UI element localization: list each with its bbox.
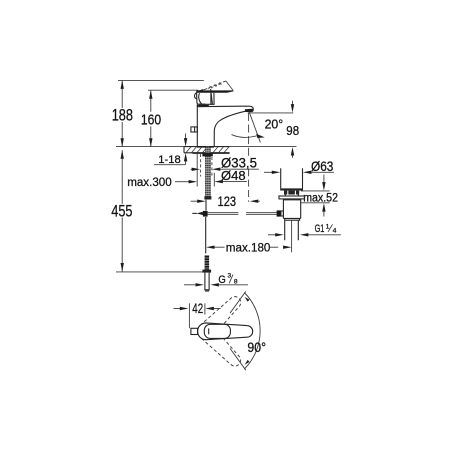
- svg-text:G: G: [218, 274, 225, 286]
- svg-text:8: 8: [234, 279, 238, 286]
- svg-text:max.300: max.300: [127, 175, 172, 189]
- svg-text:455: 455: [111, 202, 132, 220]
- svg-text:max.52: max.52: [303, 193, 338, 205]
- svg-text:max.180: max.180: [226, 240, 271, 254]
- svg-text:42: 42: [192, 301, 203, 316]
- svg-text:123: 123: [218, 194, 237, 209]
- svg-text:20°: 20°: [265, 117, 284, 132]
- svg-text:Ø63: Ø63: [311, 159, 333, 174]
- svg-text:4: 4: [333, 227, 337, 234]
- svg-text:G1: G1: [315, 223, 325, 235]
- svg-text:1-18: 1-18: [158, 154, 180, 166]
- svg-text:160: 160: [141, 111, 161, 128]
- svg-text:98: 98: [286, 123, 299, 138]
- svg-text:Ø48: Ø48: [221, 168, 246, 183]
- svg-text:90°: 90°: [247, 340, 266, 356]
- svg-text:188: 188: [112, 107, 133, 125]
